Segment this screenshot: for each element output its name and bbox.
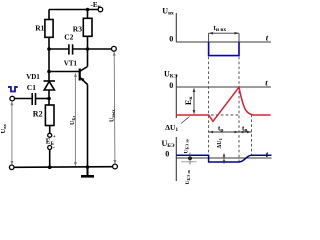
svg-text:UБЭ зо: UБЭ зо [184, 139, 190, 153]
svg-text:R1: R1 [35, 24, 44, 33]
svg-text:Uвых: Uвых [110, 109, 116, 122]
svg-text:ΔU1: ΔU1 [217, 137, 223, 148]
svg-text:C2: C2 [64, 33, 73, 42]
svg-text:R2: R2 [33, 110, 43, 119]
svg-text:Uвх: Uвх [0, 123, 7, 133]
svg-text:0: 0 [169, 34, 173, 43]
svg-text:0: 0 [169, 81, 173, 90]
svg-text:UБэ: UБэ [70, 116, 76, 125]
svg-text:-: - [53, 145, 55, 151]
svg-text:VT1: VT1 [64, 60, 78, 68]
svg-text:+: + [53, 134, 56, 140]
svg-text:VD1: VD1 [26, 73, 40, 81]
svg-text:C1: C1 [27, 83, 36, 92]
svg-text:UБЭ зо: UБЭ зо [185, 170, 191, 184]
svg-text:R3: R3 [73, 24, 82, 33]
svg-text:0: 0 [165, 150, 169, 159]
